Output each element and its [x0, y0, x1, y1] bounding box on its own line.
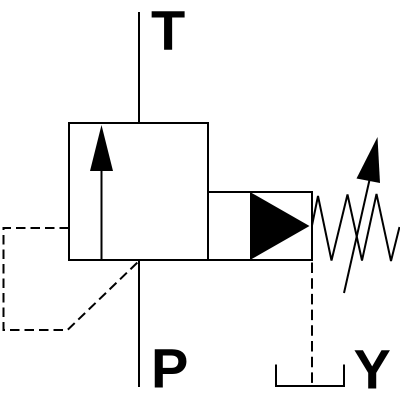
spring — [312, 194, 400, 261]
svg-text:T: T — [151, 0, 185, 62]
drain line dashed Y — [311, 260, 313, 385]
adjustment arrow — [344, 137, 380, 293]
pilot stage box — [208, 192, 312, 260]
wire P port line — [138, 260, 140, 387]
svg-text:P: P — [151, 337, 188, 400]
pilot line dashed (left) — [4, 228, 140, 330]
svg-text:Y: Y — [354, 338, 391, 400]
drain reservoir bracket — [276, 365, 344, 387]
pilot valve triangle — [250, 192, 310, 260]
flow arrow up inside main box — [90, 125, 113, 260]
main valve box — [69, 123, 208, 260]
wire T port line — [138, 12, 140, 123]
